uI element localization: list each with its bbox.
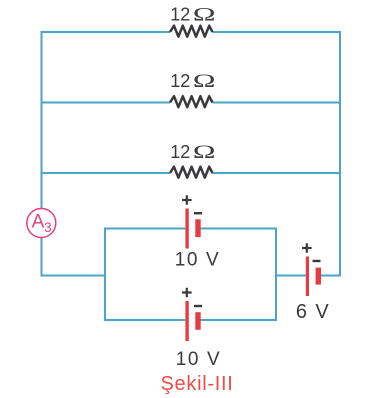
wire: battery box bottom edge left part	[104, 319, 185, 321]
svg-text:Ω: Ω	[193, 4, 216, 25]
svg-text:Ω: Ω	[193, 71, 216, 92]
resistor R1 zigzag	[170, 26, 213, 37]
wire: battery box bottom edge right part	[201, 319, 277, 321]
resistor R2 zigzag	[170, 96, 213, 107]
battery V3 minus sign	[313, 260, 321, 262]
ammeter A3	[27, 209, 56, 238]
resistor R3 12 ohm	[170, 142, 215, 178]
battery V1 negative plate	[195, 219, 200, 237]
wire: branch 1 right segment	[213, 31, 342, 33]
wire: battery box top edge left part	[104, 228, 185, 230]
svg-text:Şekil-III: Şekil-III	[161, 373, 234, 395]
battery V1 minus sign	[194, 212, 202, 214]
svg-text:12: 12	[170, 5, 190, 25]
svg-text:Ω: Ω	[193, 142, 216, 163]
wire: bottom left horizontal	[41, 275, 106, 277]
battery V1 (top of box)	[175, 195, 221, 270]
wire: right vertical	[339, 31, 341, 277]
wire: branch 3 right segment	[213, 172, 342, 174]
svg-text:10 V: 10 V	[175, 250, 221, 271]
wire: branch 3 left segment	[42, 172, 171, 174]
battery V3 positive plate	[306, 257, 309, 297]
wire: 6V battery to right corner	[321, 275, 341, 277]
wire: left vertical below ammeter	[41, 238, 43, 277]
wire: branch 1 left segment	[42, 31, 171, 33]
battery V2 positive plate	[185, 301, 188, 341]
battery V1 positive plate	[185, 209, 188, 249]
wire: battery box top edge right part	[201, 228, 277, 230]
resistor R1 12 ohm	[170, 4, 215, 37]
svg-text:12: 12	[170, 142, 190, 162]
battery V1 plus sign	[182, 195, 192, 205]
wire: branch 2 left segment	[42, 102, 171, 104]
battery V2 minus sign	[194, 305, 202, 307]
ammeter A3 circle	[27, 209, 56, 238]
wire: branch 2 right segment	[213, 102, 342, 104]
svg-text:6 V: 6 V	[296, 301, 330, 323]
resistor R3 zigzag	[170, 167, 213, 178]
battery V3 plus sign	[302, 243, 312, 253]
wire: battery box right edge	[275, 228, 277, 322]
wire: box right to 6V battery	[276, 275, 306, 277]
svg-text:3: 3	[44, 220, 52, 235]
battery V3 negative plate	[316, 268, 321, 285]
svg-text:12: 12	[170, 71, 190, 91]
battery V2 negative plate	[195, 312, 200, 330]
wire: battery box left edge	[104, 228, 106, 322]
battery V3 (right side)	[296, 243, 330, 323]
svg-text:A: A	[32, 212, 45, 233]
battery V2 (bottom of box)	[176, 288, 222, 370]
battery V2 plus sign	[182, 288, 192, 298]
resistor R2 12 ohm	[170, 71, 215, 108]
wire: left vertical above ammeter	[41, 31, 43, 209]
svg-text:10 V: 10 V	[176, 349, 222, 370]
